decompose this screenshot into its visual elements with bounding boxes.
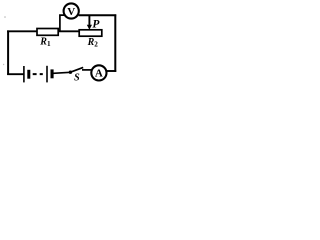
wire: ammeter right lead bbox=[107, 70, 117, 72]
svg-text:A: A bbox=[95, 68, 103, 80]
resistor R1 bbox=[37, 29, 58, 36]
wire: R1 to R2 row bbox=[58, 30, 79, 32]
ammeter U2 (A) bbox=[91, 65, 106, 80]
battery cell 1 long plate bbox=[23, 66, 25, 82]
svg-text:P: P bbox=[92, 18, 100, 30]
wire: voltmeter left lead down to R1-R2 node bbox=[60, 15, 64, 32]
battery middle dashed link bbox=[33, 73, 43, 75]
wire: top row from voltmeter to right corner bbox=[79, 14, 117, 16]
wiper arrow P head bbox=[87, 25, 92, 30]
voltmeter U1 (V) bbox=[64, 3, 79, 18]
wire: right vertical side bbox=[114, 14, 116, 72]
switch S contact dot bbox=[69, 71, 72, 74]
battery cell 2 long plate bbox=[46, 66, 48, 83]
switch S lever bbox=[70, 67, 83, 72]
battery cell 2 short thick plate bbox=[51, 69, 54, 78]
wire: top-left row from corner to R1 bbox=[7, 30, 38, 32]
svg-text:S: S bbox=[74, 73, 80, 84]
wiper arrow P stem bbox=[88, 16, 90, 26]
svg-text:V: V bbox=[67, 6, 75, 18]
wire: bottom-left row from corner to battery bbox=[7, 73, 23, 75]
wire: left vertical side bbox=[7, 30, 9, 75]
battery cell 1 short thick plate bbox=[27, 70, 30, 79]
rheostat R2 bbox=[79, 30, 102, 36]
wire: battery to switch bbox=[53, 72, 70, 73]
wire: switch to ammeter bbox=[82, 69, 92, 71]
